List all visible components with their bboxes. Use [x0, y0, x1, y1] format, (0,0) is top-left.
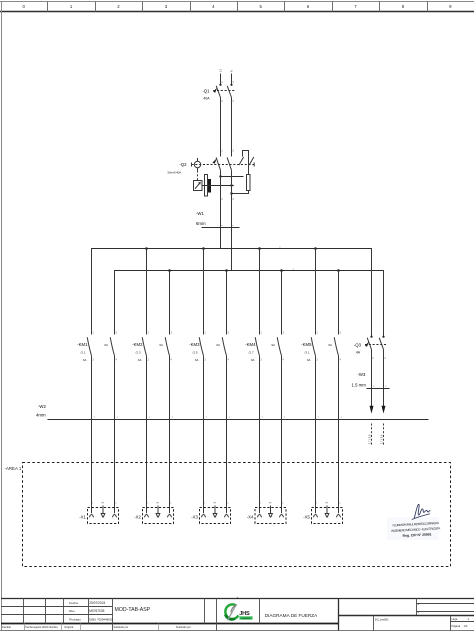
terminal strip -X2 (dashed box)	[143, 508, 174, 524]
title block vertical x=416.5	[416, 599, 418, 616]
svg-text:Sustituido por: Sustituido por	[114, 626, 129, 629]
-X3 PE terminal	[213, 506, 218, 518]
svg-text:-X3: -X3	[191, 515, 198, 520]
bottom row divider x=158.5	[158, 624, 160, 631]
engineer signature	[413, 504, 430, 519]
title block right row line a	[417, 603, 474, 605]
svg-text:-X5: -X5	[303, 515, 310, 520]
svg-text:Original: Original	[64, 625, 73, 629]
svg-text:Rev.: Rev.	[69, 609, 75, 613]
node: bus N tap x=169.5	[168, 269, 171, 272]
svg-text:6mm: 6mm	[196, 221, 206, 226]
wire: Q3 pole2 drop from bus N	[383, 271, 385, 337]
node: bus N tap x=338.5	[337, 269, 340, 272]
contactor -KM5 pole2 contact	[334, 337, 338, 356]
-X2 socket contact 1	[144, 515, 148, 518]
title block vertical x=45.5	[45, 599, 47, 624]
svg-text:DIAGRAMA DE FUERZA: DIAGRAMA DE FUERZA	[265, 613, 318, 618]
page frame: left border	[1, 2, 3, 631]
circuit breaker Q3 (2-pole, 4A)	[365, 336, 388, 350]
terminal strip -X1 (dashed box)	[88, 508, 119, 524]
title block vertical x=23.5	[23, 599, 25, 624]
wire: Q3 pole1 down	[371, 350, 373, 407]
wire: -KM1 pole1 drop from bus L1	[91, 249, 93, 335]
Q2 trip coil	[247, 175, 251, 191]
svg-text:Hoja: Hoja	[452, 617, 458, 621]
svg-text:-W1: -W1	[196, 211, 204, 216]
svg-text:/2.3: /2.3	[135, 351, 140, 355]
node: bus N tap x=226.5	[225, 269, 228, 272]
svg-text:/2.5: /2.5	[192, 351, 197, 355]
title block vertical x=204.5	[204, 599, 206, 624]
svg-text:6A: 6A	[195, 358, 199, 362]
svg-text:-W2: -W2	[38, 404, 46, 409]
svg-text:30mA/40A: 30mA/40A	[167, 170, 181, 174]
svg-text:/2.7: /2.7	[248, 351, 253, 355]
svg-text:6A: 6A	[104, 343, 108, 347]
contactor -KM3 pole1 contact	[199, 337, 203, 356]
svg-text:-X4: -X4	[247, 515, 254, 520]
svg-text:Probado: Probado	[69, 617, 81, 621]
-X5 socket contact 2	[336, 515, 340, 518]
title block outer top line	[1, 598, 474, 600]
svg-text:servicios: servicios	[242, 618, 250, 620]
signature underline	[412, 514, 431, 520]
title block right row line b	[417, 611, 474, 613]
Q2 toroid core (filled)	[208, 179, 211, 193]
title block vertical x=373.5	[373, 616, 375, 631]
wire: Q3 pole2 down	[383, 350, 385, 407]
wire: Q1 pole2 to Q2	[231, 98, 233, 157]
AREA 1 boundary (dashed box)	[23, 463, 451, 567]
title block vertical x=259.5	[259, 599, 261, 624]
company logo green swoosh	[225, 604, 238, 620]
wire: -KM5 pole1 drop from bus L1	[315, 249, 317, 335]
bottom row divider x=80.5	[80, 624, 82, 631]
svg-text:4mm: 4mm	[36, 413, 46, 418]
svg-text:MOD-TAB-ASP: MOD-TAB-ASP	[115, 607, 151, 613]
contactor -KM4 pole1 contact	[255, 337, 259, 356]
title block right mid line (dark)	[339, 615, 474, 617]
title block vertical x=112.5	[112, 599, 114, 631]
wire: -KM1 pole2 to terminal box	[114, 356, 116, 514]
sheet reference arrow pole1	[370, 406, 374, 414]
svg-text:-KM1: -KM1	[77, 342, 88, 347]
cable W2 marker line (bus)	[48, 419, 429, 421]
-X4 socket contact 1	[257, 515, 261, 518]
wire: -KM2 pole1 to terminal box	[146, 356, 148, 514]
wire: N drop into Q1	[231, 74, 233, 85]
-X1 PE terminal	[101, 506, 106, 518]
svg-text:-KM3: -KM3	[189, 342, 200, 347]
contactor -KM5 pole1 contact	[311, 337, 315, 356]
svg-text:Fecha: Fecha	[69, 601, 78, 605]
wire: Q1 pole1 to Q2	[220, 98, 222, 157]
wire: -KM4 pole2 drop from bus N	[281, 271, 283, 335]
svg-text:-Q2: -Q2	[179, 162, 187, 167]
cable W3 marker line	[367, 388, 390, 390]
-X3 socket contact 1	[201, 515, 205, 518]
wire: -KM2 pole2 to terminal box	[169, 356, 171, 514]
node: bus L1 tap x=146.5	[145, 247, 148, 250]
contactor -KM1 pole1 contact	[87, 337, 91, 356]
wire: -KM1 pole1 to terminal box	[91, 356, 93, 514]
svg-text:9A: 9A	[328, 343, 332, 347]
page bottom border	[0, 630, 474, 632]
interruption point dashed pole1	[371, 424, 373, 446]
-X3 socket contact 2	[224, 515, 228, 518]
bottom row divider x=24.5	[24, 624, 26, 631]
Q2 test resistor box	[194, 181, 203, 191]
Q2 sensing winding	[243, 151, 249, 157]
terminal strip -X3 (dashed box)	[200, 508, 231, 524]
wire: -KM3 pole2 to terminal box	[226, 356, 228, 514]
svg-text:-X2: -X2	[134, 515, 141, 520]
svg-text:9A: 9A	[251, 358, 255, 362]
residual current breaker Q2 (30mA/40A)	[192, 157, 255, 170]
contactor -KM3 pole2 contact	[222, 337, 226, 356]
engineer stamp background	[387, 517, 439, 540]
node: bus L1 tap x=315.5	[314, 247, 317, 250]
interruption point dashed pole2	[383, 424, 385, 446]
page frame: top ruler strip	[0, 2, 474, 12]
svg-text:+: +	[417, 610, 419, 614]
sheet reference arrow pole2	[382, 406, 386, 414]
node: junction coil return	[230, 192, 232, 194]
bus N (horizontal distribution, lower)	[115, 271, 384, 279]
title block vertical x=63.5	[63, 599, 65, 624]
svg-text:9A: 9A	[271, 343, 275, 347]
svg-text:1/4: 1/4	[464, 624, 468, 628]
wire: -KM3 pole2 drop from bus N	[226, 271, 228, 335]
svg-text:N: N	[230, 70, 234, 72]
wire: winding to trip coil	[248, 157, 250, 175]
-X5 socket contact 1	[313, 515, 317, 518]
svg-text:+: +	[237, 595, 239, 599]
wire: L1 drop into Q1	[220, 74, 222, 85]
wire: -KM5 pole1 to terminal box	[315, 356, 317, 514]
-X4 PE terminal	[268, 506, 273, 518]
contactor -KM1 pole2 contact	[110, 337, 114, 356]
svg-text:Cambio: Cambio	[2, 625, 11, 629]
-X1 socket contact 2	[112, 515, 116, 518]
-X5 PE terminal	[325, 506, 330, 518]
svg-text:DC_bw001: DC_bw001	[375, 618, 389, 622]
title block row line 1 (left)	[1, 606, 113, 608]
wire: Q2 pole1 down to bus	[220, 170, 222, 248]
svg-text:-X1: -X1	[79, 515, 86, 520]
svg-text:40A: 40A	[203, 97, 210, 101]
node: bus N tap x=281.5	[280, 269, 283, 272]
title block vertical x=88.5	[88, 599, 90, 624]
-X4 socket contact 2	[279, 515, 283, 518]
title block vertical x=338.5 (dark)	[338, 599, 340, 631]
node: junction pole1 tap	[219, 175, 221, 177]
wire: -KM4 pole1 drop from bus L1	[259, 249, 261, 335]
svg-text:-Q3: -Q3	[354, 342, 362, 347]
svg-text:-W3: -W3	[358, 372, 366, 377]
bottom row divider x=61.5	[61, 624, 63, 631]
svg-text:DIBU 7059448002: DIBU 7059448002	[89, 617, 113, 621]
wire: Q2 pole2 down to bus	[231, 170, 233, 270]
wire: -KM3 pole1 to terminal box	[203, 356, 205, 514]
wire: test branch to pole2	[202, 185, 234, 187]
svg-text:6A: 6A	[216, 343, 220, 347]
node: junction pole2 test	[230, 184, 232, 186]
svg-text:-Q1: -Q1	[202, 88, 210, 93]
svg-text:JHS: JHS	[239, 611, 250, 617]
svg-text:1.7 / 5.0: 1.7 / 5.0	[379, 434, 383, 444]
node: bus L1 tap x=203.5	[202, 247, 205, 250]
wire: -KM2 pole2 drop from bus N	[169, 271, 171, 335]
wire: -KM4 pole1 to terminal box	[259, 356, 261, 514]
company logo band servicios	[240, 616, 253, 619]
wire: -KM5 pole2 drop from bus N	[338, 271, 340, 335]
svg-text:Página: Página	[452, 624, 461, 628]
terminal strip -X4 (dashed box)	[255, 508, 286, 524]
title block hoja/pagina divider	[451, 621, 474, 623]
contactor -KM2 pole2 contact	[165, 337, 169, 356]
wire: -KM5 pole2 to terminal box	[338, 356, 340, 514]
title block vertical x=450.5	[450, 616, 452, 631]
contactor -KM2 pole1 contact	[142, 337, 146, 356]
svg-text:1.7 / 5.0: 1.7 / 5.0	[367, 434, 371, 444]
svg-text:/3.1: /3.1	[304, 351, 309, 355]
svg-text:-AREA 1: -AREA 1	[5, 466, 22, 471]
svg-text:/2.1: /2.1	[80, 351, 85, 355]
-X2 PE terminal	[156, 506, 161, 518]
cable W1 marker line	[202, 227, 240, 229]
svg-text:6A: 6A	[159, 343, 163, 347]
svg-text:4A: 4A	[356, 350, 361, 354]
svg-text:Fecha Agosto 2024 Nombre: Fecha Agosto 2024 Nombre	[26, 625, 59, 629]
wire: Q3 pole1 drop from bus L1	[371, 249, 373, 337]
svg-text:-KM2: -KM2	[132, 342, 143, 347]
svg-text:1.5 mm: 1.5 mm	[352, 382, 367, 387]
svg-text:-KM5: -KM5	[301, 342, 312, 347]
wire: -KM3 pole1 drop from bus L1	[203, 249, 205, 335]
svg-text:25/07/2024: 25/07/2024	[89, 601, 105, 605]
contactor -KM4 pole2 contact	[277, 337, 281, 356]
title block thick separator	[1, 623, 339, 625]
-X2 socket contact 2	[167, 515, 171, 518]
svg-text:6A: 6A	[138, 358, 142, 362]
svg-text:9A: 9A	[307, 358, 311, 362]
wire: -KM2 pole1 drop from bus L1	[146, 249, 148, 335]
bus L1 (horizontal distribution, upper)	[92, 249, 372, 257]
svg-text:+: +	[417, 602, 419, 606]
wire: pole1 tap to trip coil	[221, 176, 244, 178]
-X1 socket contact 1	[89, 515, 93, 518]
svg-text:-KM4: -KM4	[245, 342, 256, 347]
svg-text:6A: 6A	[83, 358, 87, 362]
node: bus L1 tap x=259.5	[258, 247, 261, 250]
svg-text:Sustituido por: Sustituido por	[176, 626, 191, 629]
svg-text:M0767035: M0767035	[89, 609, 104, 613]
title block vertical x=216.5	[216, 599, 218, 631]
wire: -KM4 pole2 to terminal box	[281, 356, 283, 514]
svg-text:1.: 1.	[468, 617, 471, 621]
title block row line 2 (left)	[1, 614, 113, 616]
Q2 toroid housing	[205, 175, 208, 197]
wire: -KM1 pole2 drop from bus N	[114, 271, 116, 335]
circuit breaker Q1 (2-pole, 40A)	[213, 84, 236, 98]
terminal strip -X5 (dashed box)	[312, 508, 343, 524]
Q2 test button	[194, 158, 200, 171]
wire: trip coil return to pole2	[232, 191, 249, 194]
Q2 trip linkage (dashed)	[197, 171, 199, 181]
